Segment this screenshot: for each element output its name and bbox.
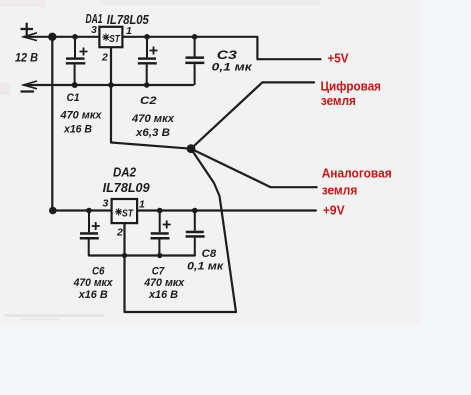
svg-text:х6,3 В: х6,3 В bbox=[135, 127, 170, 139]
svg-text:470 мкх: 470 мкх bbox=[60, 110, 103, 122]
node +9V rail bbox=[49, 207, 57, 215]
arrowhead top bbox=[24, 33, 38, 41]
node C3 top bbox=[192, 34, 198, 40]
svg-text:C7: C7 bbox=[152, 265, 165, 277]
node DA1 pin2 rail bbox=[108, 82, 114, 88]
svg-text:0,1 мк: 0,1 мк bbox=[187, 261, 225, 273]
svg-text:C6: C6 bbox=[92, 265, 105, 277]
op-amp U1 DA1 regulator box bbox=[99, 27, 122, 47]
capacitor C1 bbox=[66, 37, 88, 85]
plus input bbox=[21, 23, 34, 35]
node C1 bottom bbox=[72, 82, 78, 88]
node at rail top bbox=[48, 33, 56, 41]
node pin2 bus crossing bbox=[122, 253, 127, 258]
svg-text:470 мкх: 470 мкх bbox=[131, 113, 175, 125]
node C7 bus bbox=[157, 253, 162, 258]
svg-text:х16 В: х16 В bbox=[78, 289, 108, 301]
capacitor C3 bbox=[185, 37, 204, 85]
svg-text:х16 В: х16 В bbox=[148, 289, 178, 301]
svg-text:земля: земля bbox=[322, 183, 358, 198]
capacitor C6 bbox=[80, 211, 100, 256]
node C1 top bbox=[72, 34, 78, 40]
svg-text:C8: C8 bbox=[202, 248, 217, 260]
node C8 top bbox=[192, 208, 198, 214]
svg-text:1: 1 bbox=[139, 199, 145, 211]
svg-text:C1: C1 bbox=[67, 92, 80, 104]
svg-text:DA2: DA2 bbox=[113, 166, 136, 180]
svg-text:Цифровая: Цифровая bbox=[321, 78, 382, 93]
svg-text:2: 2 bbox=[101, 52, 108, 64]
svg-text:Аналоговая: Аналоговая bbox=[322, 166, 392, 181]
svg-text:470 мкх: 470 мкх bbox=[143, 277, 185, 289]
capacitor C8 bbox=[186, 211, 205, 256]
svg-text:C3: C3 bbox=[217, 50, 238, 62]
op-amp U2 DA2 regulator box bbox=[112, 199, 138, 223]
wire digital ground bbox=[191, 82, 314, 148]
wire center node to DA2 ground loop bbox=[125, 149, 237, 312]
node center ground bbox=[187, 144, 196, 153]
wire +9V right bbox=[137, 209, 316, 211]
capacitor C7 bbox=[151, 211, 171, 256]
minus input bbox=[21, 90, 35, 92]
node C2 top bbox=[144, 34, 150, 40]
svg-text:2: 2 bbox=[116, 227, 123, 239]
svg-text:3: 3 bbox=[103, 198, 109, 210]
node C2 bottom bbox=[144, 82, 150, 88]
node C7 top bbox=[157, 208, 163, 214]
arrowhead bottom bbox=[24, 81, 38, 89]
svg-text:ST: ST bbox=[109, 33, 121, 45]
svg-text:+9V: +9V bbox=[323, 202, 345, 217]
wire minus rail bbox=[24, 84, 193, 86]
wire DA1 pin2 to center node bbox=[111, 47, 191, 149]
node C6 top bbox=[86, 208, 92, 214]
svg-text:DA1: DA1 bbox=[86, 12, 103, 26]
capacitor C2 bbox=[138, 37, 158, 85]
svg-text:C2: C2 bbox=[140, 95, 157, 107]
wire DA1 output to +5V bbox=[122, 37, 320, 59]
svg-text:+5V: +5V bbox=[328, 51, 349, 66]
svg-text:IL78L09: IL78L09 bbox=[103, 180, 151, 195]
svg-text:ST: ST bbox=[122, 207, 134, 219]
svg-text:470 мкх: 470 мкх bbox=[73, 277, 114, 289]
wire left rail bbox=[51, 37, 53, 211]
svg-text:12 В: 12 В bbox=[15, 51, 38, 65]
svg-text:IL78L05: IL78L05 bbox=[107, 12, 150, 27]
svg-text:х16 В: х16 В bbox=[63, 123, 92, 135]
wire DA2 caps bus bbox=[89, 254, 195, 256]
wire analog ground bbox=[191, 149, 317, 188]
svg-text:0,1 мк: 0,1 мк bbox=[212, 62, 254, 74]
svg-text:земля: земля bbox=[321, 93, 356, 108]
wire +12V top bbox=[24, 36, 99, 38]
wire +9V left bbox=[52, 209, 111, 211]
